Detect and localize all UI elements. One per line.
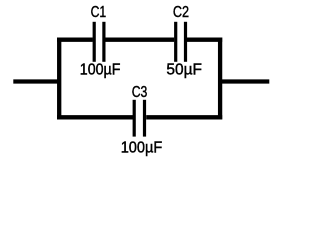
wire right vertical (218, 38, 222, 120)
wire right lead (220, 79, 269, 83)
wire left lead (13, 79, 59, 83)
svg-text:100µF: 100µF (121, 139, 163, 156)
svg-text:50µF: 50µF (166, 62, 202, 79)
wire bottom-left segment (57, 115, 133, 119)
wire left vertical (57, 38, 61, 120)
wire top-left segment (57, 38, 93, 42)
capacitor C2 (174, 22, 177, 62)
wire bottom-right segment (146, 115, 222, 119)
svg-text:C2: C2 (173, 4, 189, 21)
svg-text:C1: C1 (91, 4, 107, 21)
svg-text:C3: C3 (132, 84, 148, 101)
wire top-right segment (187, 38, 222, 42)
svg-text:100µF: 100µF (80, 62, 121, 79)
capacitor C3 (133, 100, 136, 137)
wire top-middle segment (between C1 and C2) (106, 38, 175, 42)
capacitor C1 (93, 22, 96, 62)
